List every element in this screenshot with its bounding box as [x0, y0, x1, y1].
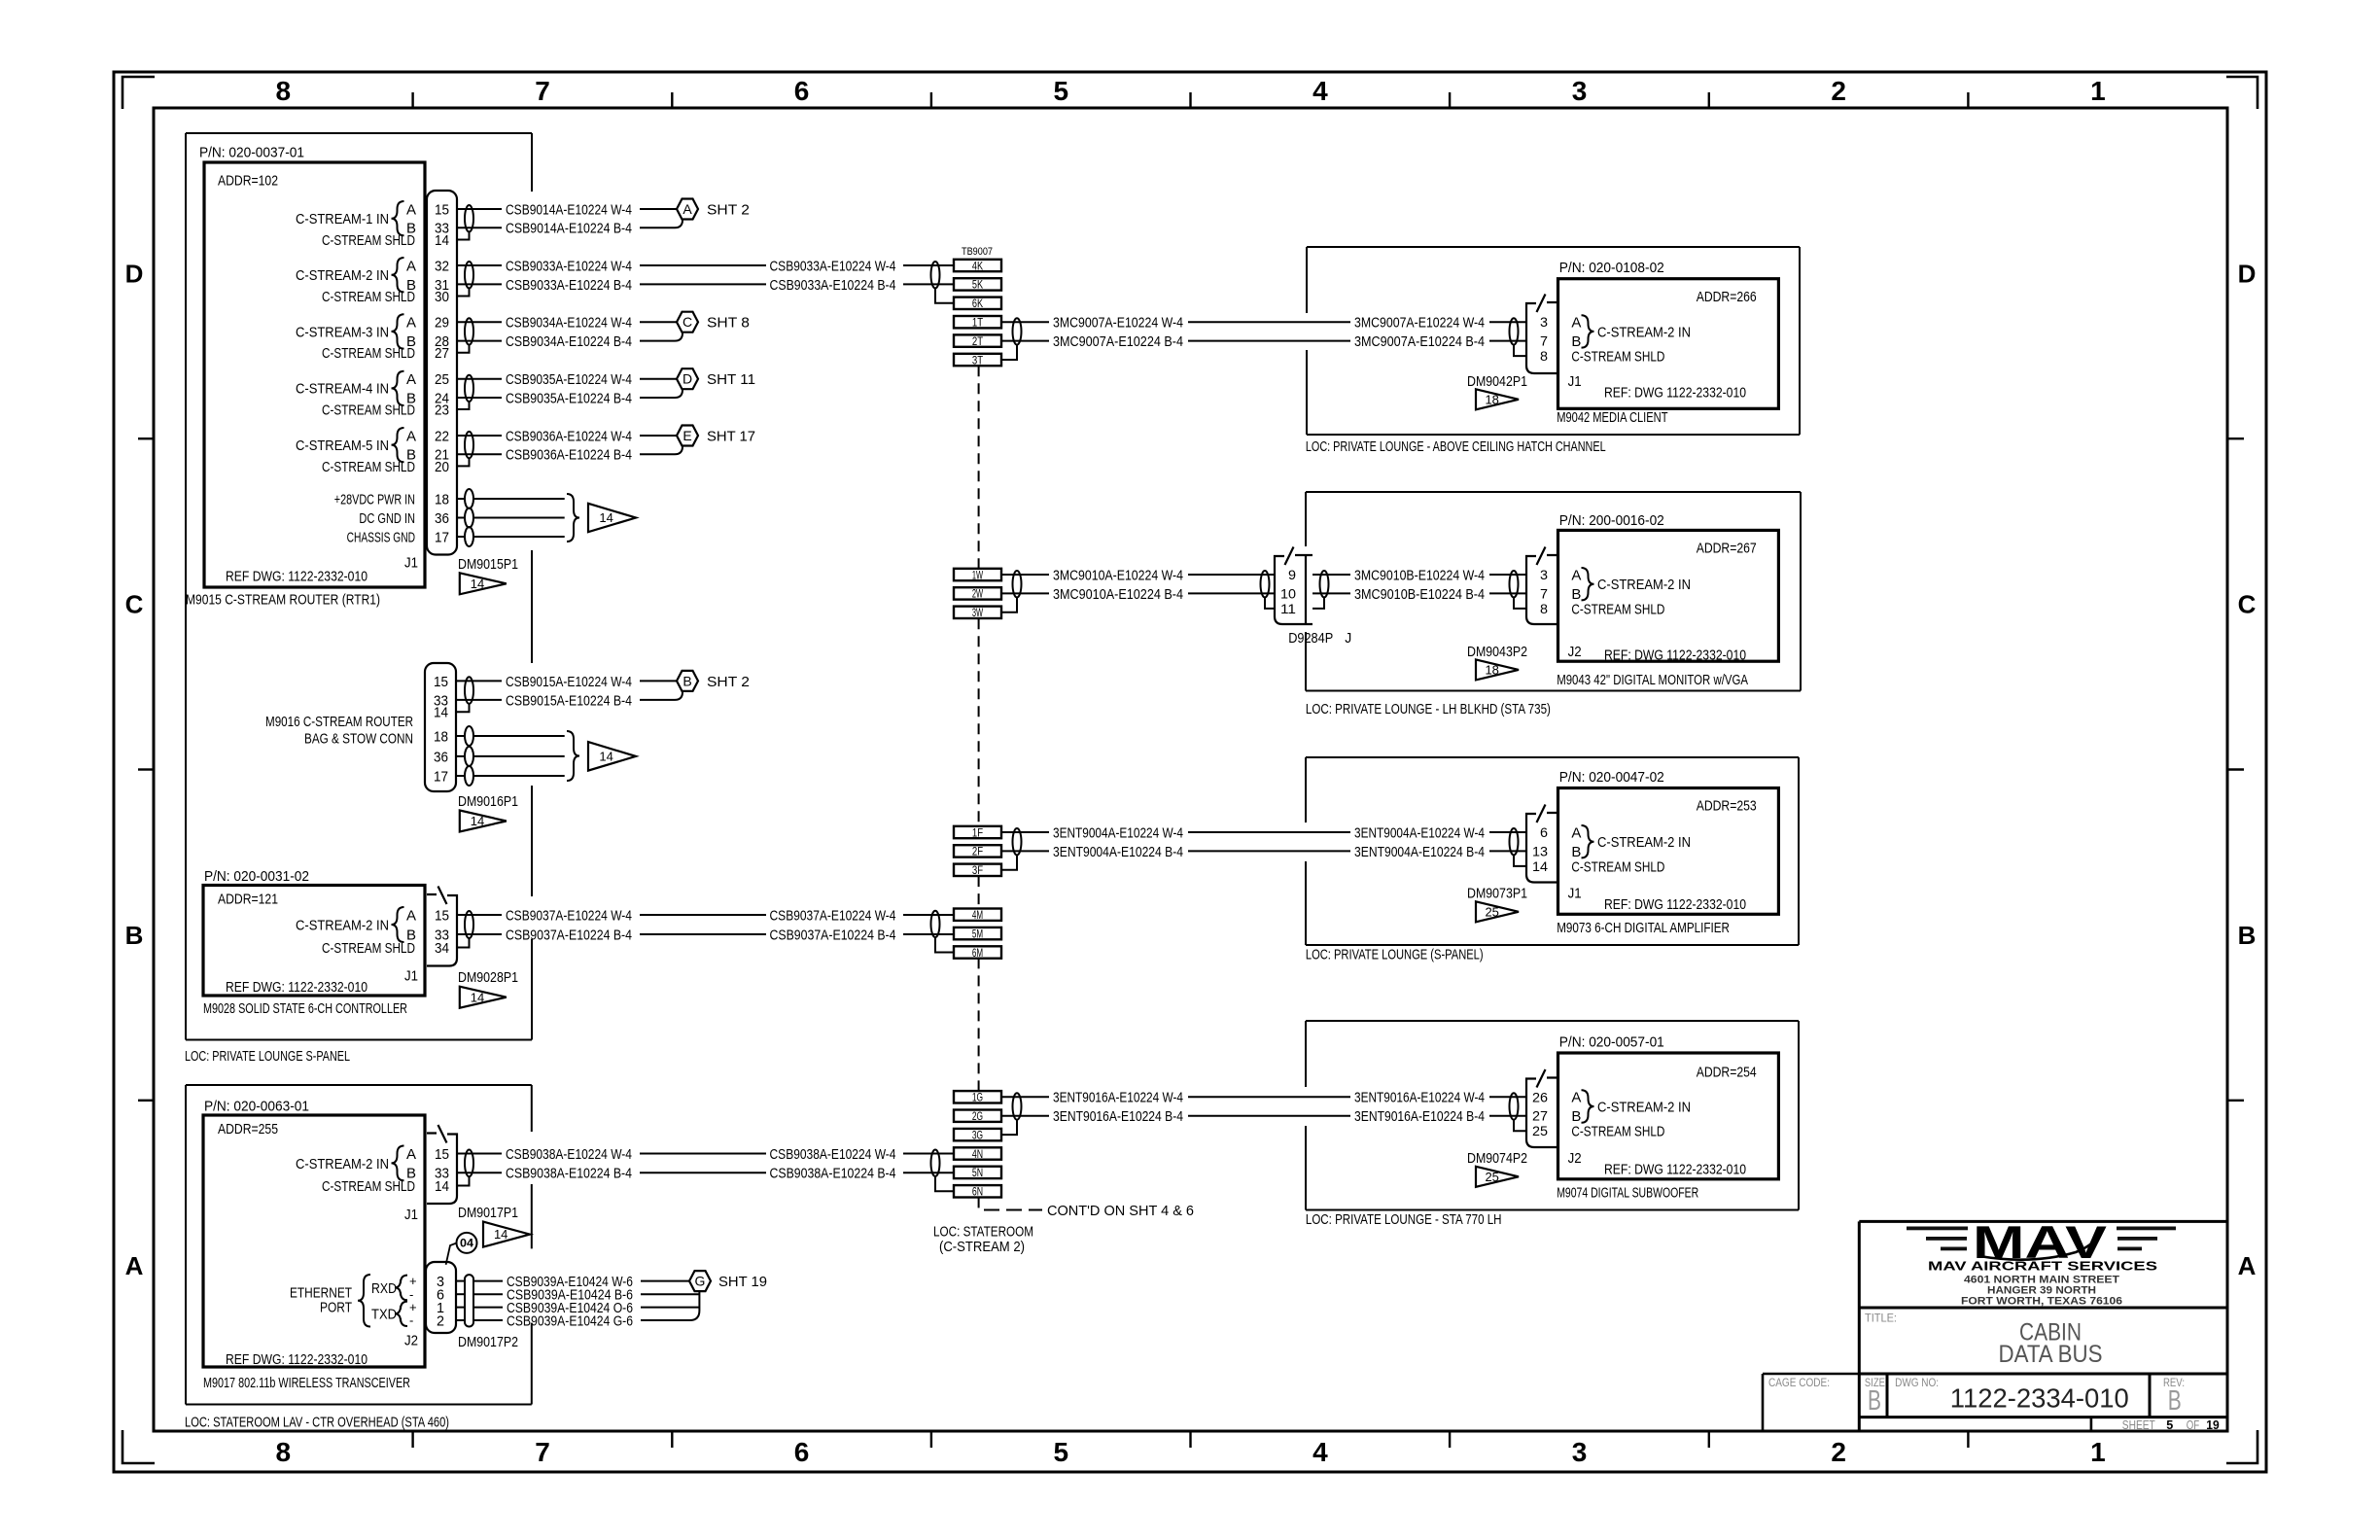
title block dividers — [1859, 1308, 2227, 1431]
svg-text:LOC: PRIVATE LOUNGE (S-PANE: LOC: PRIVATE LOUNGE (S-PANEL) — [1306, 947, 1484, 963]
title block cage cell — [1763, 1374, 1859, 1430]
svg-text:REF DWG: 1122-2332-010: REF DWG: 1122-2332-010 — [226, 568, 367, 584]
svg-text:1F: 1F — [972, 825, 983, 839]
unit M9074 body box — [1558, 1053, 1779, 1179]
svg-text:ADDR=254: ADDR=254 — [1697, 1064, 1757, 1080]
title block outline — [1859, 1221, 2227, 1431]
svg-text:3ENT9004A-E10224 B-4: 3ENT9004A-E10224 B-4 — [1053, 844, 1183, 860]
wire 3ENT9016A-E10224 B-4 run 1 — [1188, 1115, 1350, 1117]
dashed bus line horizontal contd — [984, 1209, 1042, 1211]
svg-text:LOC: STATEROOM: LOC: STATEROOM — [933, 1223, 1033, 1240]
wire 3MC9010A B-4 run — [1188, 592, 1275, 594]
svg-text:M9028 SOLID STATE 6-CH CON: M9028 SOLID STATE 6-CH CONTROLLER — [203, 1000, 407, 1017]
wire 3MC9010B stub from J — [1312, 574, 1350, 576]
sheet-ref triangle 25 DM9074P2 — [1476, 1167, 1519, 1187]
svg-text:SHEET: SHEET — [2122, 1418, 2155, 1432]
svg-text:6: 6 — [794, 76, 810, 106]
zone ticks right — [2227, 438, 2244, 1101]
wire power pin 17 — [457, 536, 465, 538]
svg-text:BAG & STOW CONN: BAG & STOW CONN — [304, 731, 413, 748]
terminal 2W TB9007 — [954, 587, 1001, 599]
svg-text:CSB9036A-E10224 B-4: CSB9036A-E10224 B-4 — [506, 447, 632, 464]
svg-text:REF: DWG 1122-2332-010: REF: DWG 1122-2332-010 — [1604, 385, 1746, 402]
unit M9016 name label — [265, 714, 413, 748]
off-sheet hex D SHT 11 — [677, 368, 698, 389]
svg-text:ADDR=255: ADDR=255 — [218, 1121, 278, 1137]
connector J1 of M9017 — [427, 1134, 457, 1205]
wire CSB9034A-E10224 W-4 to sheet ref — [640, 321, 677, 323]
svg-text:18: 18 — [1485, 392, 1498, 406]
svg-text:FORT WORTH, TEXAS 76106: FORT WORTH, TEXAS 76106 — [1961, 1295, 2122, 1307]
shield stub CSB9036A-E10224 — [457, 458, 470, 466]
svg-text:C: C — [2238, 590, 2257, 619]
svg-text:A: A — [1571, 315, 1581, 332]
wire 3ENT9016A-E10224 W-4 run 1 — [1188, 1096, 1350, 1098]
svg-text:C-STREAM SHLD: C-STREAM SHLD — [322, 345, 415, 362]
twisted pair symbol CSB9034A-E10224 — [465, 318, 473, 344]
text SHEET 5 OF 19 — [2122, 1418, 2220, 1432]
terminal 4M TB9007 — [954, 909, 1001, 921]
TB shield jumper right — [1001, 597, 1017, 612]
wire power pin 18 — [457, 498, 465, 500]
svg-text:3ENT9016A-E10224 W-4: 3ENT9016A-E10224 W-4 — [1053, 1090, 1183, 1106]
wire CSB9035A-E10224 W-4 to sheet ref — [640, 378, 677, 380]
connector D9284P — [1275, 555, 1312, 624]
svg-text:G: G — [695, 1274, 706, 1289]
svg-text:5N: 5N — [972, 1166, 983, 1179]
twisted pair symbol 3ENT9016A-E10224 at connector — [1510, 1093, 1519, 1119]
svg-text:P/N: 200-0016-02: P/N: 200-0016-02 — [1559, 512, 1664, 529]
svg-text:36: 36 — [435, 510, 449, 527]
wire 3ENT9004A-E10224 W-4 run 1 — [1188, 831, 1350, 833]
enclosure box M9073 — [1306, 757, 1799, 945]
svg-text:04: 04 — [460, 1237, 473, 1250]
svg-text:TB9007: TB9007 — [962, 246, 993, 258]
svg-text:15: 15 — [435, 201, 449, 218]
svg-text:B: B — [1571, 333, 1581, 350]
svg-text:2: 2 — [437, 1312, 444, 1329]
svg-text:8: 8 — [276, 1437, 292, 1467]
svg-text:15: 15 — [434, 674, 448, 690]
svg-text:1G: 1G — [972, 1091, 983, 1104]
svg-text:1: 1 — [2090, 1437, 2106, 1467]
svg-text:CSB9038A-E10224 B-4: CSB9038A-E10224 B-4 — [770, 1166, 896, 1182]
svg-text:3T: 3T — [972, 353, 984, 367]
svg-text:M9073 6-CH DIGITAL AMPLIFIE: M9073 6-CH DIGITAL AMPLIFIER — [1557, 920, 1730, 936]
shield stub CSB9033A-E10224 — [457, 288, 470, 296]
svg-text:A: A — [682, 201, 692, 217]
svg-text:B: B — [1571, 1108, 1581, 1125]
shield stub CSB9037A — [458, 938, 470, 948]
svg-text:A: A — [406, 201, 416, 218]
svg-text:CSB9037A-E10224 B-4: CSB9037A-E10224 B-4 — [770, 927, 896, 943]
svg-text:J1: J1 — [1568, 886, 1582, 902]
twisted triple symbol M9015 power — [465, 489, 473, 546]
wire CSB9038A B-4 — [458, 1172, 502, 1173]
wire CSB9039A O-6 — [456, 1307, 465, 1309]
svg-text:CSB9038A-E10224 B-4: CSB9038A-E10224 B-4 — [506, 1166, 632, 1182]
svg-text:MAV AIRCRAFT SERVICES: MAV AIRCRAFT SERVICES — [1928, 1259, 2157, 1274]
svg-text:CHASSIS GND: CHASSIS GND — [347, 529, 416, 545]
shield stub 3ENT9016A-E10224 at connector — [1514, 1120, 1526, 1132]
svg-text:29: 29 — [435, 315, 449, 332]
twisted quad symbol CSB9039A — [465, 1275, 473, 1326]
svg-text:C-STREAM-5 IN: C-STREAM-5 IN — [296, 437, 389, 454]
svg-text:3MC9007A-E10224 B-4: 3MC9007A-E10224 B-4 — [1053, 333, 1183, 350]
corner bracket top-left — [122, 77, 155, 109]
svg-text:REF: DWG 1122-2332-010: REF: DWG 1122-2332-010 — [1604, 647, 1746, 664]
label C-STREAM-2 IN A/B pins — [296, 258, 416, 294]
svg-text:P/N: 020-0063-01: P/N: 020-0063-01 — [204, 1098, 309, 1114]
svg-text:3: 3 — [1540, 314, 1548, 330]
svg-text:DM9073P1: DM9073P1 — [1467, 886, 1527, 902]
svg-text:3G: 3G — [972, 1128, 983, 1141]
svg-text:4N: 4N — [972, 1147, 983, 1161]
TB shield jumper right — [1001, 345, 1017, 360]
svg-text:CAGE CODE:: CAGE CODE: — [1768, 1376, 1830, 1389]
svg-text:8: 8 — [1540, 348, 1548, 364]
svg-text:DM9016P1: DM9016P1 — [458, 793, 518, 810]
svg-text:1T: 1T — [972, 316, 984, 330]
wire CSB9039A B-6 join — [641, 1293, 699, 1295]
wire CSB9033A-E10224 B-4 run to TB9007 — [640, 283, 766, 285]
svg-text:14: 14 — [1532, 858, 1548, 874]
svg-text:CONT'D ON SHT 4 & 6: CONT'D ON SHT 4 & 6 — [1047, 1203, 1194, 1219]
svg-text:7: 7 — [1540, 333, 1548, 349]
wire CSB9036A-E10224 W-4 stub — [457, 435, 502, 437]
wire 3MC9010A W-4 run — [1188, 574, 1275, 576]
svg-text:13: 13 — [1532, 843, 1548, 858]
svg-text:DM9043P2: DM9043P2 — [1467, 644, 1527, 660]
svg-text:P/N: 020-0108-02: P/N: 020-0108-02 — [1559, 260, 1664, 276]
label A B C-STREAM-2 IN M9043 — [1571, 567, 1691, 602]
twisted pair symbol CSB9037A — [465, 911, 473, 938]
svg-text:B: B — [682, 673, 691, 688]
wire 3MC9010B-E10224 B-4 run 2 — [1489, 592, 1526, 594]
svg-text:14: 14 — [435, 1178, 449, 1195]
wire CSB9014A-E10224 B-4 stub — [457, 227, 502, 228]
connector J2 of M9074 — [1526, 1078, 1557, 1148]
svg-text:LOC: PRIVATE LOUNGE - LH: LOC: PRIVATE LOUNGE - LH BLKHD (STA 735) — [1306, 701, 1551, 717]
svg-text:8: 8 — [276, 76, 292, 106]
twisted triple symbol M9016 power — [465, 726, 473, 786]
svg-text:SHT 2: SHT 2 — [707, 674, 750, 690]
zone numbers bottom — [276, 1437, 2106, 1467]
svg-text:LOC: PRIVATE LOUNGE - ABOV: LOC: PRIVATE LOUNGE - ABOVE CEILING HATC… — [1306, 438, 1606, 455]
terminal 6M TB9007 — [954, 946, 1001, 958]
corner bracket bottom-right — [2226, 1430, 2257, 1463]
svg-text:6: 6 — [794, 1437, 810, 1467]
svg-text:ADDR=121: ADDR=121 — [218, 891, 278, 907]
svg-text:1: 1 — [2090, 76, 2106, 106]
shield stub CSB9014A-E10224 — [457, 231, 470, 239]
svg-text:30: 30 — [435, 289, 449, 305]
svg-text:J1: J1 — [1568, 373, 1582, 390]
wire CSB9037A B-4 — [458, 933, 502, 935]
terminal 1T TB9007 — [954, 316, 1001, 328]
svg-text:A: A — [406, 428, 416, 444]
brace power bundle M9016 — [567, 731, 579, 781]
border inner frame — [154, 108, 2227, 1431]
terminal 3F TB9007 — [954, 864, 1001, 876]
shield stub 3MC9010B at J — [1312, 597, 1324, 609]
wire M9016 power pin 18 — [456, 735, 465, 737]
svg-text:D: D — [682, 371, 692, 387]
svg-text:C-STREAM-1 IN: C-STREAM-1 IN — [296, 211, 389, 227]
wire CSB9034A-E10224 B-4 to sheet ref — [640, 332, 682, 340]
svg-text:E: E — [682, 428, 691, 443]
TB wire stubs right — [1001, 574, 1049, 576]
wire CSB9033A-E10224 W-4 stub — [457, 264, 502, 266]
twisted pair symbol CSB9035A-E10224 — [465, 375, 473, 402]
terminal 3G TB9007 — [954, 1129, 1001, 1140]
wire M9016 power pin 36 — [456, 755, 465, 757]
svg-text:B: B — [125, 921, 144, 950]
svg-text:C-STREAM SHLD: C-STREAM SHLD — [322, 289, 415, 305]
svg-text:3: 3 — [1572, 76, 1588, 106]
TB shield jumper left — [935, 1176, 954, 1191]
label C-STREAM-1 IN A/B pins — [296, 201, 416, 237]
svg-text:A: A — [1571, 1090, 1581, 1106]
shield stub CSB9038A — [458, 1176, 470, 1185]
svg-text:14: 14 — [434, 705, 448, 721]
terminal 3T TB9007 — [954, 354, 1001, 366]
svg-text:B: B — [2238, 921, 2257, 950]
svg-text:CSB9014A-E10224 W-4: CSB9014A-E10224 W-4 — [506, 201, 632, 218]
wire 3ENT9004A-E10224 B-4 run 2 — [1489, 850, 1526, 852]
svg-text:P/N: 020-0037-01: P/N: 020-0037-01 — [199, 144, 304, 160]
svg-text:P/N: 020-0057-01: P/N: 020-0057-01 — [1559, 1033, 1664, 1050]
svg-text:B: B — [1571, 844, 1581, 860]
TB wire stubs right — [1001, 831, 1049, 833]
svg-text:2G: 2G — [972, 1109, 983, 1123]
connector J1 of M9073 — [1526, 813, 1557, 883]
svg-text:C-STREAM SHLD: C-STREAM SHLD — [1571, 1124, 1664, 1140]
svg-text:9: 9 — [1288, 567, 1296, 582]
enclosure box M9074 — [1306, 1021, 1799, 1210]
svg-text:A: A — [1571, 824, 1581, 841]
svg-text:LOC: PRIVATE LOUNGE - STA: LOC: PRIVATE LOUNGE - STA 770 LH — [1306, 1211, 1502, 1228]
label A B C-STREAM-2 IN M9073 — [1571, 824, 1691, 859]
TB shield jumper left — [935, 288, 954, 302]
twisted pair symbol at TB left — [931, 1150, 940, 1176]
wire 3ENT9016A-E10224 B-4 run 2 — [1489, 1115, 1526, 1117]
twisted pair symbol 3MC9010B at J — [1320, 571, 1329, 597]
svg-text:3ENT9004A-E10224 W-4: 3ENT9004A-E10224 W-4 — [1354, 824, 1485, 841]
svg-text:C-STREAM-2 IN: C-STREAM-2 IN — [1597, 834, 1691, 851]
wire CSB9035A-E10224 W-4 stub — [457, 378, 502, 380]
svg-text:23: 23 — [435, 402, 449, 418]
svg-text:4K: 4K — [972, 259, 983, 272]
wire CSB9036A-E10224 B-4 to sheet ref — [640, 446, 682, 454]
svg-text:CSB9038A-E10224 W-4: CSB9038A-E10224 W-4 — [770, 1146, 896, 1163]
svg-text:C-STREAM SHLD: C-STREAM SHLD — [322, 459, 415, 475]
TB shield jumper right — [1001, 855, 1017, 869]
svg-text:10: 10 — [1280, 585, 1296, 601]
svg-text:20: 20 — [435, 459, 449, 475]
svg-text:OF: OF — [2187, 1418, 2200, 1432]
sheet-ref triangle 14 DM9028P1 — [460, 987, 507, 1008]
svg-text:J2: J2 — [404, 1332, 418, 1348]
svg-text:CSB9033A-E10224 W-4: CSB9033A-E10224 W-4 — [770, 258, 896, 274]
svg-text:PORT: PORT — [320, 1299, 352, 1315]
terminal 1F TB9007 — [954, 826, 1001, 838]
svg-text:18: 18 — [1485, 663, 1498, 678]
wire 3ENT9004A-E10224 W-4 run 2 — [1489, 831, 1526, 833]
svg-text:M9042 MEDIA CLIENT: M9042 MEDIA CLIENT — [1557, 409, 1667, 426]
svg-text:C-STREAM SHLD: C-STREAM SHLD — [1571, 601, 1664, 617]
svg-text:J2: J2 — [1568, 644, 1582, 660]
svg-text:5: 5 — [1054, 1437, 1069, 1467]
svg-text:SHT 8: SHT 8 — [707, 315, 750, 332]
svg-text:C-STREAM SHLD: C-STREAM SHLD — [1571, 858, 1664, 875]
svg-text:6M: 6M — [972, 946, 983, 960]
svg-text:B: B — [1868, 1385, 1881, 1417]
svg-text:RXD: RXD — [371, 1280, 397, 1297]
twisted pair symbol CSB9033A-E10224 — [465, 262, 473, 288]
twisted pair symbol CSB9038A — [465, 1150, 473, 1177]
logo MAV aircraft services — [1907, 1216, 2176, 1268]
svg-text:14: 14 — [471, 814, 484, 828]
twisted pair symbol 3MC9007A-E10224 at connector — [1510, 318, 1519, 344]
svg-text:25: 25 — [1485, 1170, 1498, 1184]
svg-text:SHT 2: SHT 2 — [707, 201, 750, 218]
wire CSB9039A G-6 — [456, 1319, 465, 1321]
svg-text:C-STREAM SHLD: C-STREAM SHLD — [1571, 349, 1664, 366]
svg-text:3ENT9004A-E10224 W-4: 3ENT9004A-E10224 W-4 — [1053, 824, 1183, 841]
wire CSB9035A-E10224 B-4 stub — [457, 397, 502, 399]
off-sheet hex C SHT 8 — [677, 312, 698, 332]
svg-text:CSB9034A-E10224 B-4: CSB9034A-E10224 B-4 — [506, 333, 632, 350]
svg-text:15: 15 — [435, 907, 449, 924]
svg-text:C-STREAM SHLD: C-STREAM SHLD — [322, 232, 415, 249]
svg-text:P/N: 020-0047-02: P/N: 020-0047-02 — [1559, 769, 1664, 786]
svg-text:25: 25 — [1532, 1123, 1548, 1138]
twisted pair symbol CSB9036A-E10224 — [465, 432, 473, 458]
svg-text:A: A — [406, 1146, 416, 1163]
sheet-ref triangle 14 DM9016P1 — [460, 811, 507, 832]
wire 3ENT9004A-E10224 B-4 run 1 — [1188, 850, 1350, 852]
wire CSB9036A-E10224 W-4 to sheet ref — [640, 435, 677, 437]
enclosure box M9043 — [1306, 492, 1801, 691]
label C-STREAM-5 IN A/B pins — [296, 428, 416, 464]
TB wire stubs right — [1001, 321, 1049, 323]
corner bracket top-right — [2226, 77, 2257, 109]
svg-text:CSB9033A-E10224 B-4: CSB9033A-E10224 B-4 — [506, 277, 632, 294]
zone letters right — [2238, 259, 2257, 1280]
svg-text:DM9015P1: DM9015P1 — [458, 556, 518, 573]
terminal 4K TB9007 — [954, 260, 1001, 271]
connector J1 of M9028 — [427, 894, 457, 966]
svg-text:+28VDC PWR IN: +28VDC PWR IN — [334, 491, 415, 507]
off-sheet hex E SHT 17 — [677, 426, 698, 446]
svg-text:D: D — [2238, 259, 2257, 288]
twisted pair symbol 3MC9010A at D9284P — [1261, 571, 1270, 597]
svg-text:LOC: STATEROOM LAV - CTR: LOC: STATEROOM LAV - CTR OVERHEAD (STA 4… — [185, 1414, 449, 1430]
connector J2 of M9017 — [426, 1262, 456, 1333]
svg-text:3ENT9004A-E10224 B-4: 3ENT9004A-E10224 B-4 — [1354, 844, 1485, 860]
svg-text:SHT 17: SHT 17 — [707, 428, 755, 444]
svg-text:6: 6 — [1540, 824, 1548, 840]
wire CSB9036A-E10224 B-4 stub — [457, 453, 502, 455]
unit M9073 body box — [1558, 788, 1779, 915]
wire CSB9033A-E10224 W-4 run to TB9007 — [640, 264, 766, 266]
wire CSB9039A W-6 — [456, 1280, 465, 1282]
twisted pair symbol 3MC9010B-E10224 at connector — [1510, 571, 1519, 597]
shield stub 3MC9007A-E10224 at connector — [1514, 345, 1526, 357]
twisted pair symbol at TB left — [931, 911, 940, 937]
wire CSB9034A-E10224 B-4 stub — [457, 340, 502, 342]
svg-text:A: A — [406, 315, 416, 332]
terminal 5N TB9007 — [954, 1167, 1001, 1178]
label TXD — [371, 1300, 417, 1327]
enclosure box private lounge s-panel group — [186, 133, 532, 1040]
brace power bundle M9015 — [567, 494, 579, 542]
svg-text:C-STREAM-2 IN: C-STREAM-2 IN — [1597, 1099, 1691, 1115]
connector J2 of M9043 — [1526, 555, 1557, 624]
svg-text:36: 36 — [434, 749, 448, 765]
svg-text:CSB9033A-E10224 W-4: CSB9033A-E10224 W-4 — [506, 258, 632, 274]
connector J1 of M9015 — [427, 191, 457, 555]
unit M9015 body box — [204, 162, 425, 587]
sheet-ref triangle 14 DM9017P1 — [483, 1222, 530, 1247]
wire 3MC9010B-E10224 W-4 run 2 — [1489, 574, 1526, 576]
svg-text:CSB9037A-E10224 B-4: CSB9037A-E10224 B-4 — [506, 927, 632, 943]
twisted pair symbol 3ENT9004A-E10224 at connector — [1510, 828, 1519, 855]
svg-text:C-STREAM SHLD: C-STREAM SHLD — [322, 1178, 415, 1195]
shield stub 3MC9010B-E10224 at connector — [1514, 597, 1526, 609]
svg-text:11: 11 — [1280, 601, 1296, 616]
svg-text:DC GND IN: DC GND IN — [359, 510, 415, 527]
unit M9017 body box — [203, 1115, 425, 1367]
svg-text:REF DWG: 1122-2332-010: REF DWG: 1122-2332-010 — [226, 1351, 367, 1368]
wire CSB9015A W-4 — [456, 680, 502, 682]
svg-text:A: A — [2238, 1251, 2257, 1280]
unit M9043 body box — [1558, 530, 1779, 661]
wire 3MC9007A-E10224 W-4 run 2 — [1489, 321, 1526, 323]
shield stub CSB9034A-E10224 — [457, 345, 470, 353]
corner bracket bottom-left — [122, 1430, 155, 1463]
label C-STREAM-2 IN M9028 — [296, 907, 416, 943]
sheet-ref triangle 18 DM9043P2 — [1476, 659, 1519, 680]
zone ticks bottom — [413, 1431, 1969, 1448]
svg-text:18: 18 — [434, 728, 448, 745]
TB shield jumper left — [935, 937, 954, 952]
sheet-ref triangle 14 power M9016 — [588, 742, 636, 771]
label ETHERNET PORT — [290, 1275, 370, 1327]
svg-text:3MC9007A-E10224 B-4: 3MC9007A-E10224 B-4 — [1354, 333, 1485, 350]
terminal 4N TB9007 — [954, 1147, 1001, 1159]
svg-text:7: 7 — [1540, 585, 1548, 601]
svg-text:3MC9010A-E10224 B-4: 3MC9010A-E10224 B-4 — [1053, 586, 1183, 603]
svg-text:8: 8 — [1540, 601, 1548, 616]
terminal 2G TB9007 — [954, 1110, 1001, 1122]
svg-text:P/N: 020-0031-02: P/N: 020-0031-02 — [204, 868, 309, 885]
wire 3MC9007A-E10224 B-4 run 1 — [1188, 340, 1350, 342]
svg-text:A: A — [406, 258, 416, 274]
svg-text:3F: 3F — [972, 863, 983, 877]
svg-text:CSB9038A-E10224 W-4: CSB9038A-E10224 W-4 — [506, 1146, 632, 1163]
svg-text:CSB9034A-E10224 W-4: CSB9034A-E10224 W-4 — [506, 315, 632, 332]
svg-text:J1: J1 — [404, 1207, 418, 1223]
wire CSB9039A G-6 join — [641, 1291, 699, 1320]
svg-text:27: 27 — [435, 345, 449, 362]
svg-text:ADDR=267: ADDR=267 — [1697, 540, 1757, 556]
svg-text:2: 2 — [1831, 76, 1846, 106]
svg-text:32: 32 — [435, 258, 449, 274]
svg-text:DM9042P1: DM9042P1 — [1467, 373, 1527, 390]
svg-text:14: 14 — [599, 510, 612, 525]
